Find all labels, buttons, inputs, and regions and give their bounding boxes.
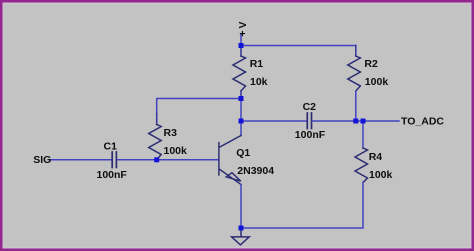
wire R2 bottom lead (355, 91, 357, 121)
wire SIG rail left (49, 159, 111, 161)
svg-text:100nF: 100nF (295, 129, 326, 141)
wire R4 top lead (362, 121, 364, 148)
svg-text:2N3904: 2N3904 (237, 165, 274, 177)
svg-text:+V: +V (237, 19, 249, 36)
wire C2 rail right to TO_ADC (313, 120, 399, 122)
resistor R4 (355, 148, 368, 183)
wire R4 bottom / bottom rail (241, 183, 363, 229)
resistor R3 (149, 125, 162, 160)
wire R3 top loop (157, 99, 241, 115)
junction node J6 (361, 119, 366, 124)
svg-text:SIG: SIG (33, 154, 51, 166)
svg-text:R1: R1 (250, 58, 264, 70)
ground stub (240, 228, 242, 237)
wire R1 top lead (240, 46, 242, 57)
wire C2 rail left (241, 120, 306, 122)
svg-text:Q1: Q1 (236, 147, 250, 159)
svg-text:100nF: 100nF (97, 169, 128, 181)
wire collector node column (240, 99, 242, 136)
junction node J3 (239, 119, 244, 124)
wire SIG rail right / base wire (118, 159, 219, 161)
svg-text:TO_ADC: TO_ADC (401, 116, 444, 128)
svg-text:R2: R2 (364, 58, 378, 70)
svg-text:100k: 100k (369, 169, 393, 181)
svg-text:100k: 100k (365, 76, 389, 88)
svg-text:R4: R4 (369, 151, 383, 163)
junction node J2 (239, 96, 244, 101)
transistor Q1 (219, 136, 241, 185)
junction node J4 (154, 157, 159, 162)
resistor R2 (348, 56, 361, 91)
wire R2 top lead (355, 46, 357, 57)
junction node J1 (239, 43, 244, 48)
wire emitter (240, 185, 242, 229)
wire R1 bottom lead (240, 91, 242, 99)
junction node J5 (353, 119, 358, 124)
resistor R1 (233, 56, 246, 91)
svg-text:10k: 10k (250, 76, 268, 88)
svg-text:C1: C1 (104, 140, 118, 152)
wire +V stub (240, 34, 242, 46)
junction node J7 (239, 226, 244, 231)
svg-text:C2: C2 (303, 101, 317, 113)
svg-text:100k: 100k (164, 145, 188, 157)
svg-text:R3: R3 (164, 127, 178, 139)
capacitor C1 (112, 152, 116, 168)
ground symbol (232, 237, 250, 245)
capacitor C2 (307, 113, 311, 129)
wire R3 upper lead (156, 114, 158, 125)
wire top rail (241, 45, 356, 47)
